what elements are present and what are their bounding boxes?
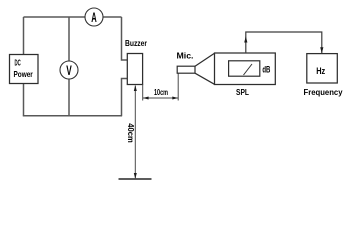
wire buzzer top lead bbox=[122, 17, 128, 60]
wire voltmeter bottom lead bbox=[68, 79, 70, 117]
wire voltmeter top lead bbox=[68, 17, 70, 62]
svg-text:A: A bbox=[91, 9, 97, 25]
wire top bbox=[24, 16, 122, 18]
wire bottom bbox=[23, 115, 122, 117]
arrow up on signal wire bbox=[244, 36, 247, 42]
svg-text:Power: Power bbox=[14, 70, 34, 79]
frequency counter Hz bbox=[307, 54, 338, 83]
SPL meter body bbox=[215, 53, 276, 85]
SPL meter horn bbox=[195, 53, 215, 84]
svg-text:10cm: 10cm bbox=[154, 87, 168, 97]
wire buzzer bottom lead bbox=[122, 79, 128, 116]
dimension 10cm bbox=[143, 74, 179, 101]
microphone tip bbox=[177, 66, 195, 73]
arrow down into frequency counter bbox=[320, 47, 323, 53]
svg-text:Mic.: Mic. bbox=[177, 51, 194, 61]
signal wire SPL to frequency counter bbox=[246, 32, 322, 53]
buzzer bbox=[127, 54, 142, 85]
svg-text:Frequency: Frequency bbox=[304, 87, 343, 97]
voltmeter V bbox=[60, 61, 78, 79]
dimension 40cm bbox=[126, 85, 137, 178]
svg-text:SPL: SPL bbox=[236, 87, 249, 97]
svg-text:Buzzer: Buzzer bbox=[125, 38, 147, 48]
DC power supply bbox=[10, 55, 39, 84]
svg-text:DC: DC bbox=[15, 58, 21, 67]
SPL needle bbox=[244, 64, 253, 75]
svg-text:dB: dB bbox=[262, 64, 270, 74]
wire DC power bottom lead bbox=[23, 84, 25, 117]
wire left vertical bbox=[23, 17, 25, 55]
svg-text:V: V bbox=[66, 62, 72, 78]
svg-text:40cm: 40cm bbox=[126, 123, 136, 143]
floor line bbox=[119, 178, 152, 180]
SPL display bbox=[229, 61, 260, 76]
ammeter A bbox=[85, 8, 103, 26]
svg-text:Hz: Hz bbox=[316, 66, 325, 76]
